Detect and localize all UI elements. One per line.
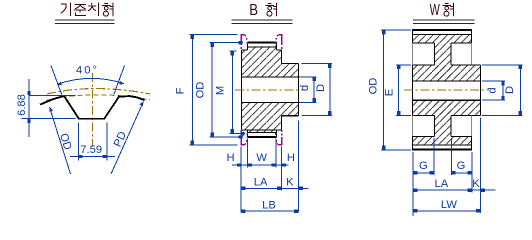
svg-text:H: H [287, 152, 295, 164]
D dimension (W) [482, 65, 522, 116]
PD arc (dash-dot) [47, 89, 150, 94]
svg-text:7.59: 7.59 [80, 144, 102, 156]
B centerline [235, 89, 306, 91]
svg-text:M: M [215, 86, 227, 95]
arrow 40 left [57, 82, 62, 86]
W outline [413, 29, 472, 31]
svg-text:40°: 40° [76, 65, 99, 77]
OD dimension [210, 43, 243, 137]
bottom dims W : extension lines [413, 118, 481, 217]
bottom dims B : extension lines [241, 121, 298, 213]
svg-text:LB: LB [262, 200, 276, 212]
M dimension [229, 51, 245, 134]
title 기준치형 [61, 3, 113, 16]
glyph 치 [89, 3, 99, 16]
svg-text:d: d [299, 85, 311, 91]
svg-text:H: H [226, 152, 234, 164]
svg-text:K: K [472, 178, 480, 190]
svg-text:D: D [315, 84, 327, 92]
row1 H W H [232, 164, 289, 166]
title1 underline [55, 20, 115, 24]
G dims [413, 172, 472, 174]
LW row [413, 210, 481, 212]
E dimension [396, 65, 411, 116]
svg-text:D: D [504, 86, 516, 94]
svg-text:W: W [430, 2, 441, 19]
OD leader [50, 107, 71, 174]
B body outline [248, 42, 277, 44]
flange bottom-right [278, 137, 281, 145]
40deg extension lines [51, 66, 125, 95]
D dimension (B) [302, 64, 332, 116]
svg-text:F: F [175, 87, 187, 94]
svg-text:PD: PD [112, 130, 129, 149]
flange top-right [278, 35, 281, 43]
glyph 기 [61, 3, 71, 16]
svg-text:W: W [256, 152, 267, 164]
hatching W [413, 35, 472, 44]
LA K row [413, 189, 496, 191]
glyph 준 [74, 4, 86, 15]
40deg arc [57, 78, 124, 84]
svg-text:B: B [249, 2, 258, 19]
6.88 dimension [22, 79, 76, 137]
row2 LA K [241, 187, 308, 189]
svg-text:OD: OD [57, 132, 73, 152]
svg-text:G: G [457, 160, 466, 172]
flange top-left [241, 35, 244, 43]
d dimension (W) [482, 81, 505, 100]
svg-text:d: d [486, 87, 498, 93]
OD arc (dashed) [46, 95, 150, 101]
7.59 dimension [70, 123, 115, 161]
svg-text:OD: OD [194, 82, 206, 99]
row3 LB [241, 210, 298, 212]
flange bottom-left [241, 137, 244, 145]
svg-text:OD: OD [368, 78, 380, 95]
hatching B [248, 47, 277, 50]
arrow 40 right [119, 81, 124, 85]
glyph 형 [103, 3, 113, 16]
centerline vertical [91, 73, 93, 147]
svg-text:G: G [419, 160, 428, 172]
svg-text:6.88: 6.88 [16, 94, 28, 116]
svg-text:LA: LA [254, 177, 268, 189]
F dimension [190, 35, 238, 146]
svg-text:LA: LA [435, 178, 449, 190]
tooth profile black [40, 96, 145, 119]
PD leader [111, 102, 144, 175]
W centerline [404, 89, 489, 91]
svg-text:K: K [286, 177, 294, 189]
OD dimension (W) [381, 30, 411, 150]
svg-text:LW: LW [441, 199, 457, 211]
svg-text:E: E [384, 89, 396, 96]
d dimension (B) [299, 77, 317, 103]
